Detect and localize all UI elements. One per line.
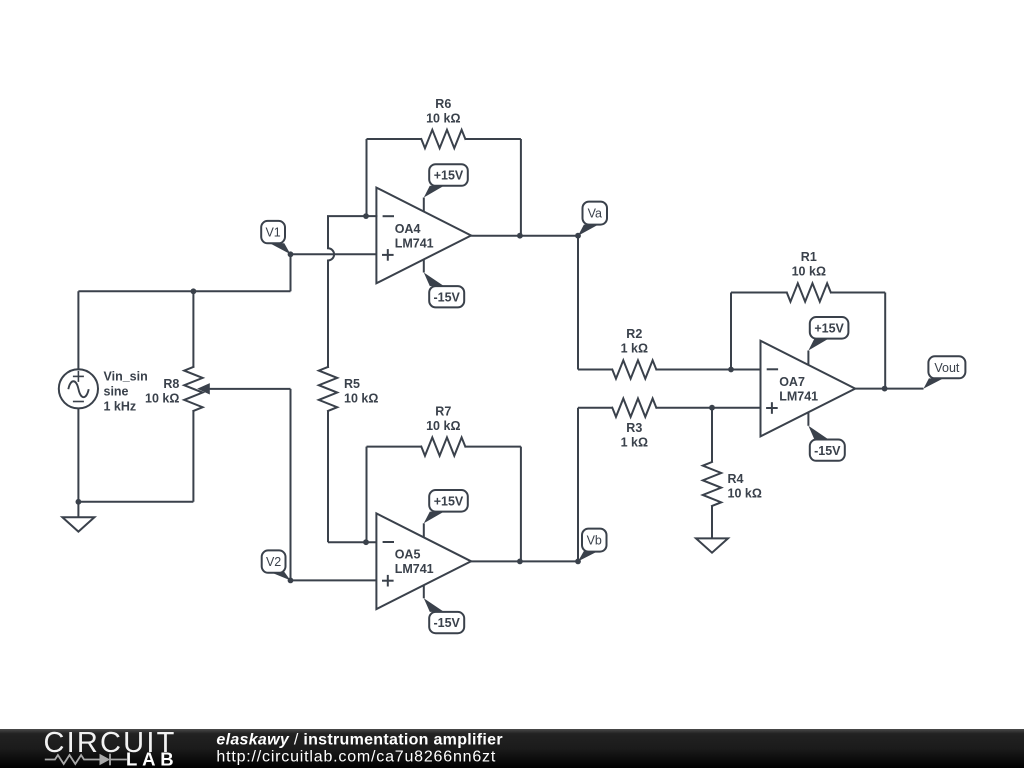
label R5 value [344,377,378,406]
footer url text [216,749,496,766]
svg-text:+15V: +15V [434,494,464,508]
svg-text:R1: R1 [801,250,817,264]
voltage source Vin_sin [59,369,98,408]
wire R8 top lead [192,291,194,367]
node Va flag [578,202,607,236]
svg-text:10 kΩ: 10 kΩ [728,487,762,501]
svg-text:10 kΩ: 10 kΩ [792,265,826,279]
wire Va vertical [577,236,579,370]
svg-text:-15V: -15V [814,444,841,458]
wire top horizontal [78,290,290,292]
svg-text:R5: R5 [344,377,360,391]
resistor R5 [319,367,337,411]
wire R5 bottom [328,411,376,542]
flag -15V OA5 [424,585,464,633]
wire R1 right lead [831,293,885,389]
svg-text:10 kΩ: 10 kΩ [426,419,460,433]
wire source top [77,291,79,369]
wire V1 vertical [290,254,292,291]
svg-text:R7: R7 [435,404,451,418]
wire R6 left lead [367,138,422,140]
node Va junction [575,233,581,239]
svg-text:OA7: OA7 [779,375,805,389]
label OA4 LM741 [395,222,434,251]
svg-text:V2: V2 [266,555,281,569]
resistor R1 [787,283,831,301]
junction OA5 minus [363,539,369,545]
junction R8 top tap [191,288,197,294]
label R1 value [792,250,826,279]
wire R7 right lead [465,447,521,562]
svg-text:+15V: +15V [814,321,844,335]
wire V2 to OA5 plus input [291,579,377,581]
wire R3 right lead [656,407,760,409]
svg-text:+15V: +15V [434,169,464,183]
node Vb flag [578,529,607,562]
label R2 value [621,327,648,356]
svg-text:LM741: LM741 [395,236,434,250]
wire R6 left vertical [366,139,368,216]
flag +15V OA4 [424,164,468,211]
wire R7 left lead [367,446,422,448]
wire OA7 output [855,388,923,390]
svg-text:10 kΩ: 10 kΩ [145,391,179,405]
ground GND2 [696,538,728,552]
junction OA4 minus [363,213,369,219]
label OA7 LM741 [779,375,818,404]
logo LAB text [126,749,178,768]
label R7 value [426,404,460,433]
svg-text:10 kΩ: 10 kΩ [344,391,378,405]
wire bottom horizontal [78,501,193,503]
wire R2 left lead [578,369,612,371]
node V2 flag [262,550,291,580]
wire R4 top lead [711,408,713,462]
node V1 flag [261,221,290,254]
wire R3 left lead [578,407,612,409]
label Vin_sin value [104,369,148,413]
wire source bottom [77,408,79,501]
wire V1 to OA4 plus input [291,253,377,255]
logo CIRCUIT text [44,727,177,759]
wire Vb vertical [577,408,579,562]
svg-text:OA4: OA4 [395,222,421,236]
wire OA4 output [471,235,578,237]
resistor R3 [612,399,656,417]
svg-text:10 kΩ: 10 kΩ [426,111,460,125]
svg-text:1 kΩ: 1 kΩ [621,435,648,449]
svg-text:Vout: Vout [934,361,960,375]
op-amp OA5 [376,513,471,609]
svg-text:V1: V1 [265,226,280,240]
resistor R2 [612,360,656,378]
svg-text:LM741: LM741 [395,562,434,576]
wire V2 wiper vertical [290,389,292,581]
label R4 value [728,472,762,501]
label R3 value [621,421,648,450]
wire R4 bottom lead [711,506,713,538]
node Vout flag [924,356,966,388]
R8 wiper arrow [197,383,290,394]
node Vb junction [575,559,581,565]
wire R8 bottom lead [192,411,194,502]
svg-text:-15V: -15V [433,290,460,304]
node V2 junction [288,578,294,584]
ground GND1 [62,502,94,532]
svg-text:-15V: -15V [433,616,460,630]
svg-text:1 kΩ: 1 kΩ [621,342,648,356]
op-amp OA4 [376,188,471,284]
junction R4 tap [709,405,715,411]
op-amp OA7 [761,341,856,437]
svg-text:Va: Va [588,207,602,221]
svg-text:OA5: OA5 [395,548,421,562]
svg-text:R8: R8 [163,377,179,391]
potentiometer R8 [184,367,202,411]
flag +15V OA5 [424,490,468,537]
junction OA7 output [882,386,888,392]
svg-text:R2: R2 [626,327,642,341]
node V1 junction [288,251,294,257]
resistor R7 [421,437,465,455]
junction OA5 feedback [517,559,523,565]
resistor R4 [703,462,721,506]
label OA5 LM741 [395,548,434,577]
junction source bottom [76,499,82,505]
footer bar [0,729,1024,768]
resistor R6 [421,130,465,148]
svg-text:LM741: LM741 [779,390,818,404]
wire R2 right lead [656,369,760,371]
flag -15V OA4 [424,259,464,307]
wire R5 top with hop [328,216,376,367]
flag -15V OA7 [808,412,844,460]
logo resistor-diode squiggle [45,754,127,766]
svg-text:Vin_sin: Vin_sin [104,369,148,383]
footer title text [216,732,502,749]
svg-text:Vb: Vb [587,534,602,548]
junction OA4 feedback [517,233,523,239]
svg-text:R6: R6 [435,97,451,111]
label R8 value [145,377,179,406]
flag +15V OA7 [808,317,848,365]
svg-text:elaskawy / instrumentation amp: elaskawy / instrumentation amplifier [216,732,502,749]
svg-text:http://circuitlab.com/ca7u8266: http://circuitlab.com/ca7u8266nn6zt [216,749,496,766]
svg-text:R3: R3 [626,421,642,435]
wire R7 left vertical [366,447,368,543]
wire R1 left vertical [731,293,787,370]
svg-text:sine: sine [104,384,129,398]
label R6 value [426,97,460,126]
wire R6 right lead [465,139,521,236]
svg-text:R4: R4 [728,472,744,486]
svg-text:1 kHz: 1 kHz [104,399,137,413]
wire OA5 output [471,560,578,562]
svg-text:LAB: LAB [126,749,178,768]
junction OA7 minus [728,367,734,373]
